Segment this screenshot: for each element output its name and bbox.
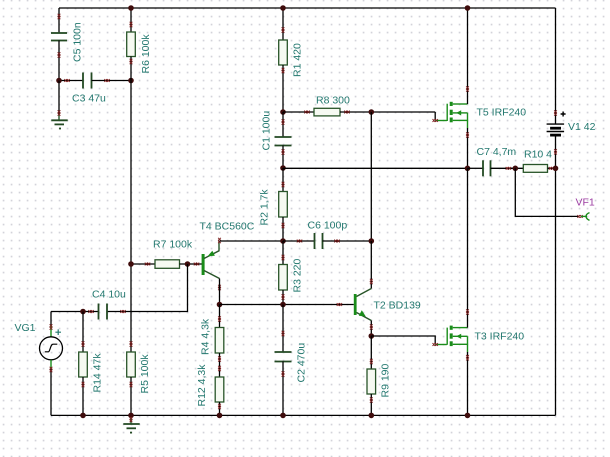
svg-text:C1 100u: C1 100u [261, 111, 273, 151]
wire VF1 tap [515, 168, 578, 216]
transistor T4 BC560C [200, 221, 255, 291]
node R10 right [553, 166, 559, 172]
node R7 right / T4 base [185, 261, 191, 267]
svg-text:C6 100p: C6 100p [308, 220, 348, 232]
wire right rail upper [555, 8, 557, 124]
resistor R4 [200, 305, 224, 378]
node R8 right [369, 109, 375, 115]
resistor R6 [127, 8, 152, 81]
svg-text:R12 4,3k: R12 4,3k [196, 364, 208, 407]
resistor R10 [523, 149, 555, 173]
node C1 bottom [280, 165, 286, 171]
resistor R12 [196, 364, 224, 416]
svg-text:T2 BD139: T2 BD139 [374, 300, 421, 312]
generator VG1 [15, 312, 63, 416]
node R2 bottom [280, 238, 286, 244]
node T3 source bottom [465, 413, 471, 419]
svg-text:R4 4,3k: R4 4,3k [200, 318, 212, 355]
node C4 / R14 top [80, 309, 86, 315]
resistor R9 [367, 336, 392, 415]
wire C6 right riser [370, 112, 372, 241]
node R12 bottom [217, 413, 223, 419]
wire right rail lower [555, 135, 557, 415]
resistor R8 [283, 95, 435, 116]
svg-text:C2 470u: C2 470u [296, 343, 308, 383]
capacitor C4 [51, 289, 126, 320]
svg-text:R14 47k: R14 47k [92, 353, 104, 393]
wire T2 collector riser [370, 241, 372, 289]
battery V1 [547, 110, 596, 154]
svg-text:T4 BC560C: T4 BC560C [200, 221, 255, 233]
resistor R3 [279, 241, 304, 305]
wire mid rail [220, 304, 354, 306]
capacitor C3 [59, 73, 131, 105]
svg-text:T3 IRF240: T3 IRF240 [475, 331, 525, 343]
svg-text:R8 300: R8 300 [316, 95, 350, 107]
capacitor C1 [261, 111, 292, 168]
node C3 left [56, 78, 62, 84]
node T5 source / C7 [465, 166, 471, 172]
node C2 bottom [280, 413, 286, 419]
ground G1 [51, 81, 67, 129]
capacitor C7 [468, 146, 524, 176]
wire T4 emitter to node [220, 240, 284, 242]
resistor R1 [279, 8, 304, 112]
wire feedback [283, 167, 468, 169]
capacitor C2 [275, 305, 308, 416]
ground G2 [123, 417, 139, 433]
svg-text:C4 10u: C4 10u [92, 289, 126, 301]
svg-text:C7 4,7m: C7 4,7m [477, 146, 517, 158]
svg-text:V1 42: V1 42 [568, 121, 596, 133]
svg-text:R6 100k: R6 100k [140, 34, 152, 74]
transistor T5 IRF240 [433, 8, 527, 168]
resistor R5 [127, 341, 151, 415]
wire left bias rail [130, 81, 132, 353]
node R7 left [128, 261, 134, 267]
wire base riser [107, 264, 188, 312]
terminal VF1 [576, 197, 595, 221]
svg-text:R10 4: R10 4 [524, 149, 552, 161]
node R1 top [280, 5, 286, 11]
wire top rail [59, 7, 556, 9]
node R5 bottom [128, 413, 134, 419]
node T4 collector [217, 302, 223, 308]
capacitor C5 [51, 8, 84, 81]
node C7 right [513, 166, 519, 172]
resistor R14 [79, 312, 104, 416]
svg-text:R1 420: R1 420 [292, 43, 304, 77]
resistor R7 [131, 239, 202, 269]
node R14 bottom [80, 413, 86, 419]
resistor R2 [259, 168, 288, 241]
transistor T3 IRF240 [433, 168, 525, 415]
svg-text:R2 1,7k: R2 1,7k [259, 189, 271, 226]
node C6 right [369, 238, 375, 244]
svg-text:C5 100n: C5 100n [72, 22, 84, 62]
svg-text:R9 190: R9 190 [380, 363, 392, 397]
node T5 top [465, 5, 471, 11]
node R9 bottom [369, 413, 375, 419]
node top rail R6 [128, 5, 134, 11]
svg-text:VF1: VF1 [576, 197, 595, 209]
svg-text:T5 IRF240: T5 IRF240 [477, 107, 527, 119]
wire T4 collector down [219, 279, 221, 305]
node T2 emitter [369, 333, 375, 339]
svg-text:R5 100k: R5 100k [139, 354, 151, 394]
wire T3 gate run [371, 336, 435, 345]
node R3 bottom [280, 302, 286, 308]
node C3 right [128, 78, 134, 84]
capacitor C6 [283, 220, 371, 250]
svg-text:C3 47u: C3 47u [72, 93, 106, 105]
wire bottom rail [51, 414, 556, 416]
svg-text:R3 220: R3 220 [292, 258, 304, 292]
node R1 bottom [280, 109, 286, 115]
svg-text:R7 100k: R7 100k [153, 239, 193, 251]
transistor T2 BD139 [337, 279, 421, 336]
svg-text:VG1: VG1 [15, 322, 36, 334]
